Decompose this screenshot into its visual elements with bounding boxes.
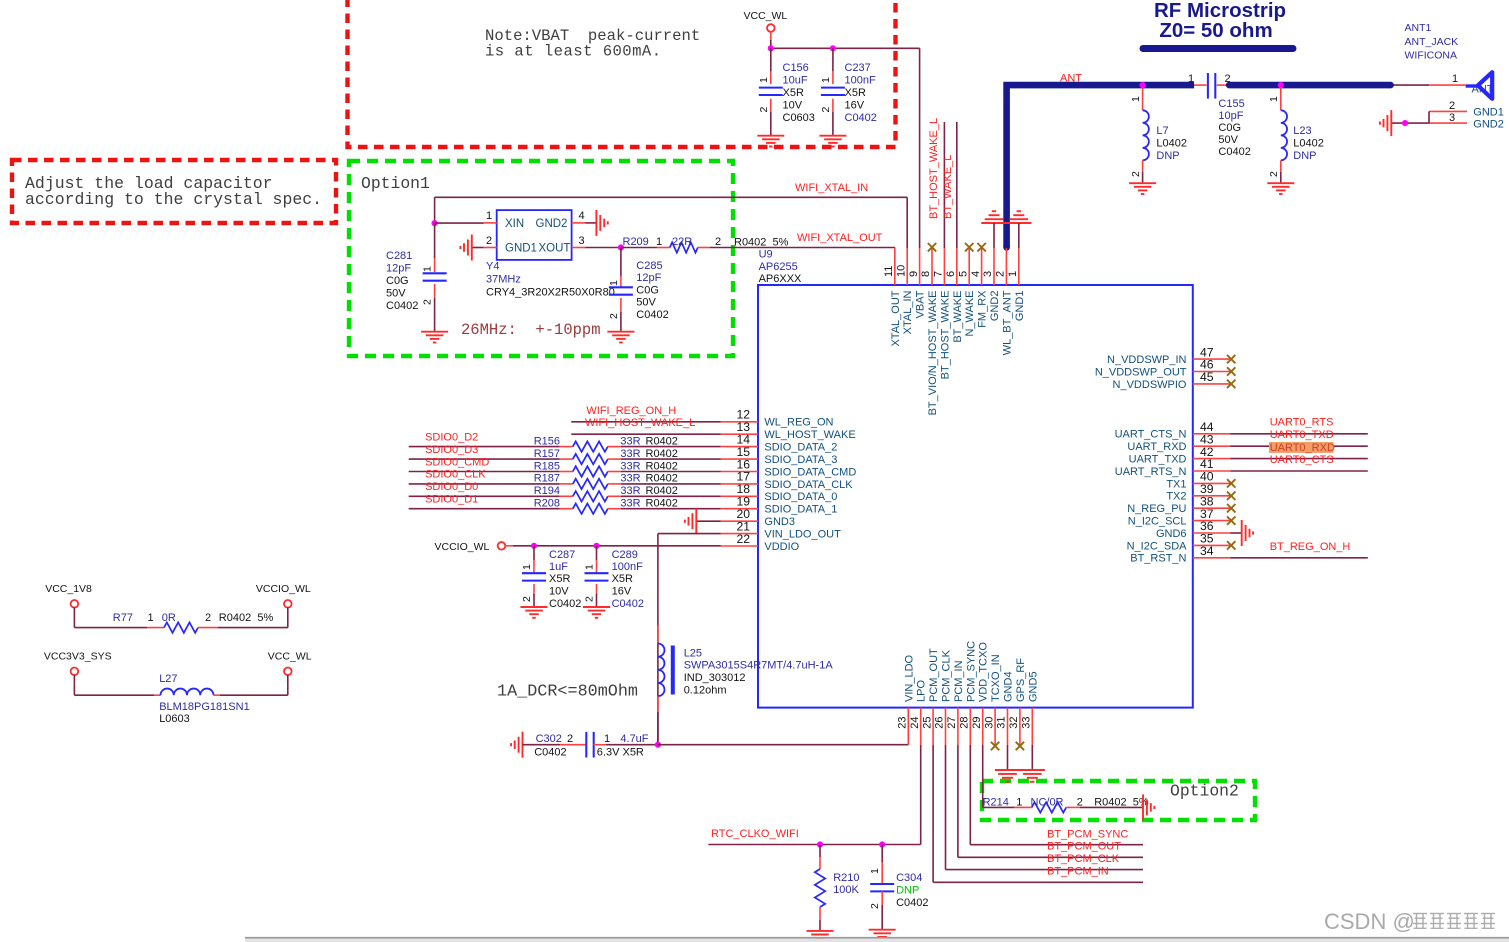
pin 32 GPS_RF (bottom) [1008, 658, 1027, 750]
svg-text:WL_BT_ANT: WL_BT_ANT [1001, 290, 1013, 355]
svg-text:6: 6 [945, 271, 957, 277]
svg-text:BT_WAKE_L: BT_WAKE_L [942, 155, 954, 219]
svg-text:VCC_WL: VCC_WL [744, 10, 788, 22]
svg-text:SDIO0_CLK: SDIO0_CLK [425, 469, 486, 481]
label RF Microstrip title [1143, 0, 1293, 49]
power symbol VCCIO_WL [435, 541, 535, 553]
svg-text:3: 3 [982, 271, 994, 277]
svg-text:L25: L25 [684, 648, 702, 660]
svg-text:VDD_TCXO: VDD_TCXO [978, 642, 990, 702]
svg-text:UART0_CTS: UART0_CTS [1270, 454, 1334, 466]
pin 27 PCM_IN (bottom) [946, 660, 965, 745]
svg-text:R0402: R0402 [646, 473, 678, 485]
svg-text:UART_TXD: UART_TXD [1129, 454, 1187, 466]
svg-text:10uF: 10uF [783, 75, 808, 87]
svg-text:0.12ohm: 0.12ohm [684, 685, 727, 697]
svg-text:33: 33 [1021, 717, 1033, 729]
svg-text:50V: 50V [1218, 134, 1238, 146]
svg-text:10V: 10V [783, 100, 803, 112]
svg-text:32: 32 [1008, 717, 1020, 729]
label DCR note [497, 683, 638, 702]
svg-text:33R: 33R [620, 498, 640, 510]
antenna symbol [1466, 72, 1493, 99]
svg-text:2: 2 [820, 107, 832, 113]
svg-text:BT_PCM_CLK: BT_PCM_CLK [1047, 853, 1120, 865]
microstrip trace horizontal [1229, 82, 1390, 89]
svg-text:SDIO0_D1: SDIO0_D1 [425, 494, 478, 506]
svg-text:N_VDDSWPIO: N_VDDSWPIO [1113, 379, 1187, 391]
svg-text:XOUT: XOUT [539, 243, 571, 255]
wire PCM pin 26 [946, 745, 1144, 870]
svg-text:12pF: 12pF [636, 272, 661, 284]
pin 28 PCM_SYNC (bottom) [959, 641, 978, 745]
svg-text:SDIO0_D2: SDIO0_D2 [425, 431, 478, 443]
svg-text:UART0_TXD: UART0_TXD [1270, 429, 1334, 441]
svg-text:1: 1 [1452, 73, 1458, 85]
label BT_PCM_OUT [1047, 841, 1121, 853]
svg-text:26MHz: +-10ppm: 26MHz: +-10ppm [461, 321, 601, 339]
svg-text:BT_VIO/N_HOST_WAKE: BT_VIO/N_HOST_WAKE [927, 291, 939, 416]
svg-text:VCC_1V8: VCC_1V8 [45, 583, 92, 595]
svg-text:R0402: R0402 [646, 435, 678, 447]
svg-text:34: 34 [1200, 544, 1214, 558]
inductor L23 [1268, 87, 1324, 183]
wire GND2 pin 3 [993, 223, 995, 248]
svg-text:3: 3 [579, 235, 585, 247]
svg-text:16V: 16V [612, 586, 632, 598]
svg-text:C0402: C0402 [386, 300, 418, 312]
wire GND3 pin 20 [696, 520, 721, 522]
svg-text:VBAT: VBAT [915, 290, 927, 318]
svg-text:N_VDDSWP_OUT: N_VDDSWP_OUT [1095, 366, 1187, 378]
svg-text:C281: C281 [386, 250, 412, 262]
svg-text:L0402: L0402 [1293, 138, 1324, 150]
svg-text:R77: R77 [113, 612, 133, 624]
wire ANT net thin [1006, 85, 1465, 250]
resistor R157 33R [534, 448, 721, 464]
svg-text:L7: L7 [1156, 125, 1168, 137]
svg-text:C289: C289 [612, 549, 638, 561]
svg-text:5: 5 [957, 271, 969, 277]
svg-text:PCM_SYNC: PCM_SYNC [965, 641, 977, 702]
pin 3 GND2 (top) [982, 248, 1001, 321]
svg-text:SDIO_DATA_CMD: SDIO_DATA_CMD [764, 466, 856, 478]
capacitor C281 [386, 223, 447, 332]
svg-text:UART_RTS_N: UART_RTS_N [1115, 466, 1187, 478]
svg-text:X5R: X5R [612, 573, 633, 585]
svg-text:GND1: GND1 [1473, 107, 1504, 119]
label SDIO0_D0 [425, 481, 478, 493]
svg-text:16V: 16V [845, 100, 865, 112]
green dashed box Option2 [982, 781, 1255, 820]
capacitor C155 series [1188, 73, 1251, 158]
capacitor C156 [758, 48, 815, 135]
wire SDIO0_D3 [409, 458, 573, 460]
capacitor C287 [521, 546, 581, 610]
pin 18 SDIO_DATA_0 (left) [721, 482, 838, 503]
capacitor C289 [584, 546, 645, 610]
svg-text:C0G: C0G [636, 284, 659, 296]
node VDDIO junction C287 [531, 543, 537, 549]
svg-text:SDIO_DATA_0: SDIO_DATA_0 [764, 491, 837, 503]
resistor R209 22R [621, 236, 895, 253]
svg-text:C0402: C0402 [636, 309, 668, 321]
pin 16 SDIO_DATA_CMD (left) [721, 457, 857, 478]
svg-text:VCC_WL: VCC_WL [268, 651, 312, 663]
svg-text:ANT: ANT [1060, 73, 1082, 85]
svg-text:GND5: GND5 [1027, 671, 1039, 702]
svg-text:N_REG_PU: N_REG_PU [1127, 503, 1186, 515]
pin 30 TCXO_IN (bottom) [983, 654, 1002, 750]
svg-text:X5R: X5R [549, 573, 570, 585]
svg-text:SDIO0_D0: SDIO0_D0 [425, 481, 478, 493]
svg-text:22R: 22R [672, 236, 692, 248]
pin 35 N_I2C_SDA (right) [1127, 532, 1236, 553]
svg-text:1uF: 1uF [549, 561, 568, 573]
pin 39 TX2 (right) [1166, 482, 1235, 503]
label WIFI_XTAL_IN [795, 182, 868, 194]
pin 1 ANT of connector [1452, 73, 1494, 96]
inductor L27 ferrite [154, 673, 250, 725]
svg-text:2: 2 [1449, 100, 1455, 112]
label U9 refdes [759, 249, 802, 285]
capacitor C304 DNP [869, 845, 929, 930]
pin 17 SDIO_DATA_CLK (left) [721, 470, 853, 491]
wire SDIO0_D1 [409, 508, 573, 510]
svg-text:Option1: Option1 [361, 174, 430, 193]
svg-text:33R: 33R [620, 460, 640, 472]
svg-text:N_I2C_SCL: N_I2C_SCL [1128, 516, 1187, 528]
svg-text:NC/0R: NC/0R [1031, 796, 1064, 808]
label WIFI_XTAL_OUT [797, 232, 883, 244]
pin 13 WL_HOST_WAKE (left) [721, 420, 856, 441]
label 26MHz tolerance [461, 321, 601, 339]
svg-text:is at least 600mA.: is at least 600mA. [485, 43, 662, 61]
svg-text:X5R: X5R [783, 87, 804, 99]
svg-text:VCCIO_WL: VCCIO_WL [435, 541, 490, 553]
pin 22 VDDIO (left) [721, 532, 800, 553]
resistor R210 100K [815, 845, 860, 931]
svg-text:GPS_RF: GPS_RF [1015, 658, 1027, 702]
resistor R77 0R [113, 612, 274, 633]
svg-text:33R: 33R [620, 485, 640, 497]
wire WIFI_REG_ON_H to pin 12 [571, 421, 721, 423]
pin 44 UART_CTS_N (right) [1115, 420, 1231, 441]
ground symbol above pin 1 [1010, 211, 1029, 219]
ground at pin 36 [1242, 520, 1253, 546]
svg-text:BT_PCM_SYNC: BT_PCM_SYNC [1047, 828, 1128, 840]
wire WIFI_XTAL_OUT to pin 11 [894, 247, 896, 250]
pin 14 SDIO_DATA_2 (left) [721, 432, 838, 453]
svg-text:WIFI_HOST_WAKE_L: WIFI_HOST_WAKE_L [585, 417, 695, 429]
svg-text:0R: 0R [162, 612, 176, 624]
svg-text:RTC_CLKO_WIFI: RTC_CLKO_WIFI [711, 828, 799, 840]
svg-text:R210: R210 [833, 872, 859, 884]
node L23 tap [1278, 82, 1284, 88]
svg-text:C0G: C0G [386, 275, 409, 287]
ground below R210 [807, 931, 834, 942]
highlight UART0_RXD [1269, 442, 1334, 453]
svg-text:1A_DCR<=80mOhm: 1A_DCR<=80mOhm [497, 683, 638, 702]
label BT_PCM_SYNC [1047, 828, 1128, 840]
svg-text:1: 1 [1268, 96, 1280, 102]
svg-text:2: 2 [486, 235, 492, 247]
label WIFI_REG_ON_H [586, 405, 676, 417]
svg-text:PCM_IN: PCM_IN [953, 660, 965, 702]
svg-text:GND1: GND1 [505, 243, 537, 255]
pin 23 VIN_LDO (bottom) [897, 654, 916, 745]
resistor R208 33R [534, 498, 721, 514]
power symbol VCCIO_WL (right) [218, 583, 311, 628]
svg-text:12pF: 12pF [386, 263, 411, 275]
svg-text:BT_REG_ON_H: BT_REG_ON_H [1270, 541, 1351, 553]
watermark CSDN [1324, 909, 1495, 934]
label SDIO0_CLK [425, 469, 486, 481]
ground at crystal GND2 [596, 210, 607, 236]
wire WIFI_XTAL_IN [435, 197, 908, 248]
svg-text:24: 24 [909, 717, 921, 729]
wire WIFI_HOST_WAKE_L to pin 13 [571, 433, 721, 435]
node VIN_LDO junction [655, 742, 661, 748]
svg-text:SDIO_DATA_2: SDIO_DATA_2 [764, 442, 837, 454]
capacitor C285 [608, 248, 669, 332]
svg-text:1: 1 [758, 77, 770, 83]
inductor L25 [658, 625, 833, 745]
svg-text:SDIO0_CMD: SDIO0_CMD [425, 456, 489, 468]
svg-text:WL_REG_ON: WL_REG_ON [764, 417, 833, 429]
svg-text:R0402 5%: R0402 5% [734, 237, 789, 249]
svg-text:45: 45 [1200, 370, 1214, 384]
svg-text:VDDIO: VDDIO [764, 541, 799, 553]
svg-text:TCXO_IN: TCXO_IN [990, 654, 1002, 702]
pin 3 GND2 of connector [1429, 112, 1504, 131]
svg-text:50V: 50V [386, 288, 406, 300]
wire PCM pin 27 [958, 745, 1143, 857]
power symbol VCC_WL [744, 10, 788, 48]
svg-text:1: 1 [820, 77, 832, 83]
svg-text:PCM_OUT: PCM_OUT [928, 648, 940, 702]
svg-text:R214: R214 [983, 796, 1009, 808]
svg-text:XTAL_IN: XTAL_IN [902, 290, 914, 334]
svg-text:TX2: TX2 [1166, 491, 1186, 503]
ground below C289 [583, 607, 610, 618]
svg-text:BT_PCM_IN: BT_PCM_IN [1047, 866, 1109, 878]
svg-text:VIN_LDO: VIN_LDO [903, 654, 915, 702]
resistor R156 33R [534, 435, 721, 451]
pin 1 XIN stub [435, 210, 497, 223]
svg-text:VCCIO_WL: VCCIO_WL [256, 583, 311, 595]
svg-text:R0402: R0402 [646, 448, 678, 460]
wire GND4 pin 31 [1007, 745, 1009, 770]
wire BT_WAKE_L [956, 122, 958, 248]
svg-text:SDIO0_D3: SDIO0_D3 [425, 444, 478, 456]
pin 19 SDIO_DATA_1 (left) [721, 495, 838, 516]
svg-text:R194: R194 [534, 485, 560, 497]
label SDIO0_D1 [425, 494, 478, 506]
wire PCM pin 25 [933, 745, 1143, 882]
svg-text:R0402 5%: R0402 5% [219, 612, 274, 624]
label SDIO0_D2 [425, 431, 478, 443]
ground below L23 [1267, 183, 1294, 194]
ground below C281 [421, 332, 448, 343]
svg-text:6.3V X5R: 6.3V X5R [597, 747, 644, 759]
svg-text:2: 2 [1077, 796, 1083, 808]
svg-text:XTAL_OUT: XTAL_OUT [890, 290, 902, 346]
svg-text:WIFI_REG_ON_H: WIFI_REG_ON_H [586, 405, 676, 417]
ground below C287 [521, 607, 548, 618]
node connector ground junction [1402, 120, 1408, 126]
svg-text:C0402: C0402 [896, 897, 928, 909]
pin 45 N_VDDSWPIO (right) [1113, 370, 1236, 391]
svg-text:2: 2 [869, 903, 881, 909]
svg-text:WIFICONA: WIFICONA [1405, 50, 1458, 62]
pin 25 PCM_OUT (bottom) [921, 648, 940, 745]
svg-text:BT_PCM_OUT: BT_PCM_OUT [1047, 841, 1121, 853]
svg-text:R209: R209 [623, 236, 649, 248]
wire VBAT to pin 9 [919, 48, 921, 248]
ground at R214 [1143, 794, 1154, 820]
svg-text:1: 1 [1130, 96, 1142, 102]
pin 29 VDD_TCXO (bottom) [971, 642, 990, 745]
pin 2 GND1 of connector [1429, 100, 1504, 119]
svg-text:N_WAKE: N_WAKE [964, 291, 976, 337]
pin 40 TX1 (right) [1166, 470, 1235, 491]
pin 37 N_I2C_SCL (right) [1128, 507, 1236, 528]
svg-text:C0G: C0G [1218, 122, 1241, 134]
footer divider [245, 938, 1509, 942]
svg-text:AP6255: AP6255 [759, 261, 798, 273]
wire SDIO0_D2 [409, 446, 573, 448]
wire SDIO0_CMD [409, 471, 573, 473]
svg-text:37MHz: 37MHz [486, 274, 521, 286]
svg-text:2: 2 [715, 236, 721, 248]
svg-text:GND2: GND2 [536, 218, 568, 230]
svg-text:C302: C302 [536, 733, 562, 745]
svg-text:GND6: GND6 [1156, 528, 1187, 540]
pin 24 LPO (bottom) [909, 680, 928, 745]
label UART0_CTS [1270, 454, 1334, 466]
label BT_PCM_CLK [1047, 853, 1120, 865]
svg-text:SDIO_DATA_CLK: SDIO_DATA_CLK [764, 479, 853, 491]
label UART0_RTS [1270, 417, 1334, 429]
svg-text:2: 2 [1130, 171, 1142, 177]
svg-text:DNP: DNP [1293, 150, 1316, 162]
svg-text:33R: 33R [620, 473, 640, 485]
label ANT [1060, 73, 1082, 85]
wire PCM pin 28 [970, 745, 1143, 845]
svg-text:GND1: GND1 [1014, 291, 1026, 322]
svg-text:UART_RXD: UART_RXD [1127, 441, 1186, 453]
label SDIO0_CMD [425, 456, 489, 468]
svg-text:ANT1: ANT1 [1405, 22, 1432, 34]
svg-text:1: 1 [1007, 271, 1019, 277]
svg-text:SDIO_DATA_3: SDIO_DATA_3 [764, 454, 837, 466]
ground below C237 [819, 136, 846, 147]
pin 1 GND1 (top) [1007, 248, 1026, 321]
label RTC_CLKO_WIFI [711, 828, 799, 840]
svg-text:25: 25 [921, 717, 933, 729]
svg-text:2: 2 [608, 313, 620, 319]
svg-text:CRY4_3R20X2R50X0R80: CRY4_3R20X2R50X0R80 [486, 287, 615, 299]
wire VIN_LDO to pin 23 [658, 708, 908, 745]
svg-text:11: 11 [883, 266, 895, 277]
svg-text:10V: 10V [549, 586, 569, 598]
svg-text:R0402: R0402 [646, 460, 678, 472]
svg-text:1: 1 [604, 733, 610, 745]
svg-text:4: 4 [970, 271, 982, 277]
node C304 junction [879, 841, 885, 847]
svg-text:C0402: C0402 [845, 112, 877, 124]
pin 9 VBAT (top) [908, 248, 927, 318]
power symbol VCC_1V8 [45, 583, 147, 628]
svg-text:N_I2C_SDA: N_I2C_SDA [1127, 540, 1188, 552]
svg-text:DNP: DNP [896, 885, 919, 897]
node crystal XIN junction [432, 220, 438, 226]
ground symbol above pin 3 [985, 211, 1004, 219]
node VDDIO junction C289 [593, 543, 599, 549]
resistor R187 33R [534, 473, 721, 489]
svg-text:31: 31 [996, 717, 1008, 729]
svg-text:C304: C304 [896, 872, 922, 884]
svg-text:3: 3 [1449, 112, 1455, 124]
resistor R185 33R [534, 460, 721, 476]
svg-text:2: 2 [1225, 73, 1231, 85]
svg-text:C0402: C0402 [549, 598, 581, 610]
svg-text:33R: 33R [620, 448, 640, 460]
capacitor C237 [820, 48, 877, 135]
svg-text:1: 1 [486, 210, 492, 222]
red dashed note box (left) [12, 160, 336, 223]
svg-text:R208: R208 [534, 498, 560, 510]
pin 47 N_VDDSWP_IN (right) [1107, 345, 1235, 366]
svg-text:GND2: GND2 [1473, 119, 1504, 131]
connector ANT1 labels [1405, 22, 1459, 62]
pin 12 WL_REG_ON (left) [721, 408, 834, 429]
svg-text:50V: 50V [636, 297, 656, 309]
pin 7 BT_HOST_WAKE (top) [933, 248, 952, 379]
ground bar above GND pins [981, 222, 1031, 224]
svg-text:Z0= 50 ohm: Z0= 50 ohm [1159, 19, 1272, 42]
pin 41 UART_RTS_N (right) [1115, 457, 1231, 478]
svg-text:R156: R156 [534, 435, 560, 447]
svg-text:WL_HOST_WAKE: WL_HOST_WAKE [764, 429, 855, 441]
ground below C304 [869, 930, 896, 941]
svg-text:BT_RST_N: BT_RST_N [1130, 553, 1186, 565]
wire GND1 pin 1 [1018, 223, 1020, 248]
svg-text:26: 26 [934, 717, 946, 729]
IC U9 AP6255 outline [758, 285, 1193, 708]
ground below C156 [757, 136, 784, 147]
svg-text:GND2: GND2 [989, 291, 1001, 322]
pin 42 UART_TXD (right) [1129, 445, 1231, 466]
svg-text:29: 29 [971, 717, 983, 729]
svg-text:1: 1 [422, 266, 434, 272]
ground at crystal GND1 [460, 235, 471, 261]
svg-text:BT_WAKE: BT_WAKE [952, 291, 964, 343]
svg-text:N_VDDSWP_IN: N_VDDSWP_IN [1107, 354, 1187, 366]
svg-text:1: 1 [1016, 796, 1022, 808]
node VBAT junction 1 [768, 45, 774, 51]
label UART0_TXD [1270, 429, 1334, 441]
svg-text:R157: R157 [534, 448, 560, 460]
svg-text:2: 2 [422, 299, 434, 305]
svg-text:SDIO_DATA_1: SDIO_DATA_1 [764, 504, 837, 516]
svg-text:1: 1 [1188, 73, 1194, 85]
svg-text:C0402: C0402 [1218, 146, 1250, 158]
wire BT_HOST_WAKE_L [943, 122, 945, 248]
svg-text:R0402: R0402 [646, 498, 678, 510]
svg-text:UART0_RXD: UART0_RXD [1270, 442, 1335, 454]
